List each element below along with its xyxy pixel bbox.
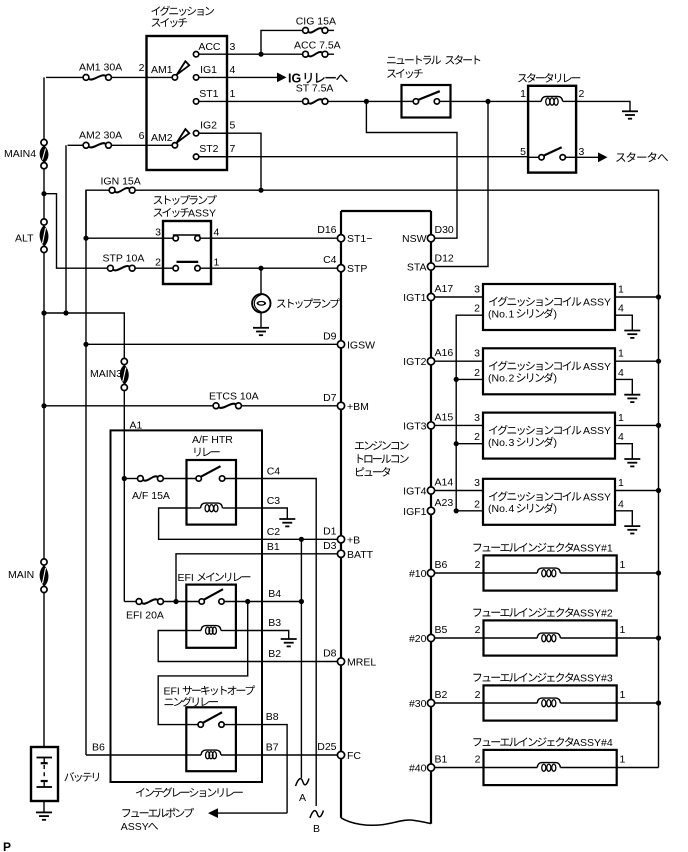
svg-text:ST 7.5A: ST 7.5A xyxy=(296,83,334,95)
wire junction up to CIG fuse row xyxy=(261,30,303,54)
fuse CIG 15A xyxy=(303,28,309,34)
ground at EFI relay coil xyxy=(281,638,297,640)
stop lamp switch pin3 xyxy=(173,236,178,241)
wire ACC junction to ACC fuse xyxy=(261,53,303,55)
wire STP feed jog xyxy=(44,194,108,269)
wire AM2 fuse to switch xyxy=(111,144,146,146)
svg-text:(No.: (No. xyxy=(488,437,508,449)
svg-text:EFI 20A: EFI 20A xyxy=(126,610,164,622)
wire NSW to starter relay xyxy=(451,100,529,102)
label battery xyxy=(64,772,99,782)
wire pin4 to ECU ST1- xyxy=(211,237,341,239)
A/F relay coil xyxy=(201,503,223,508)
svg-text:ASSY#2: ASSY#2 xyxy=(573,608,613,620)
wire STP fuse to pin2 xyxy=(135,267,163,269)
wire IG2 junction to right bus xyxy=(261,190,659,767)
node line A B4 junction xyxy=(299,599,304,604)
wire MAIN3 line to EFI fuse xyxy=(124,601,136,603)
svg-text:1: 1 xyxy=(509,308,515,320)
svg-text:2: 2 xyxy=(139,62,145,74)
label fuel injector assy #2 xyxy=(473,608,573,618)
ECU pin D30 NSW xyxy=(427,235,434,242)
node bus junction coil 2 xyxy=(656,359,661,364)
svg-text:IG1: IG1 xyxy=(200,64,217,76)
svg-text:): ) xyxy=(554,308,558,320)
svg-text:2: 2 xyxy=(509,373,515,385)
fuse ACC 7.5A xyxy=(303,51,309,57)
svg-text:B2: B2 xyxy=(435,689,448,701)
fuse A/F 15A xyxy=(138,476,144,482)
svg-text:): ) xyxy=(554,437,558,449)
ignition coil assy No.3 box xyxy=(483,413,615,459)
svg-text:#40: #40 xyxy=(409,763,427,775)
fusible link MAIN3 xyxy=(121,358,127,364)
svg-text:(No.: (No. xyxy=(488,373,508,385)
svg-text:B7: B7 xyxy=(266,742,279,754)
wire ST2 to starter relay pin5 xyxy=(199,156,528,158)
ignition switch SW1 box xyxy=(147,36,228,170)
integration relay box xyxy=(111,430,263,782)
svg-text:MAIN4: MAIN4 xyxy=(4,148,36,160)
node junction pin3 xyxy=(83,236,88,241)
ignition switch AM2 lever xyxy=(177,129,190,143)
svg-text:D1: D1 xyxy=(323,525,337,537)
node bus junction injector 2 xyxy=(656,635,661,640)
ECU pin B6 #10 xyxy=(427,569,434,576)
svg-text:(No.: (No. xyxy=(488,308,508,320)
ground at battery xyxy=(36,811,52,813)
label fuel injector assy #4 xyxy=(473,737,573,747)
wire coil1 pin4 to ground xyxy=(615,315,632,330)
ECU pin D9 IGSW xyxy=(337,341,344,348)
svg-text:2: 2 xyxy=(475,689,481,701)
svg-text:1: 1 xyxy=(618,412,624,424)
wire A1 to AF fuse xyxy=(124,478,137,480)
fuse AM1 30A xyxy=(83,75,89,81)
wire ETCS fuse to ECU +BM xyxy=(241,405,341,407)
svg-text:A/F HTR: A/F HTR xyxy=(192,434,233,446)
svg-text:ASSY: ASSY xyxy=(583,425,611,437)
COR lever xyxy=(203,712,222,723)
svg-text:4: 4 xyxy=(230,64,236,76)
ECU pin D7 +BM xyxy=(337,402,344,409)
svg-text:NSW: NSW xyxy=(402,233,427,245)
node IGSW junction xyxy=(83,342,88,347)
svg-text:2: 2 xyxy=(579,88,585,100)
svg-text:): ) xyxy=(554,373,558,385)
svg-text:4: 4 xyxy=(618,367,624,379)
node line A top junction xyxy=(299,537,304,542)
starter relay lever xyxy=(544,147,562,155)
ECU pin D8 MREL xyxy=(337,658,344,665)
svg-text:IGN 15A: IGN 15A xyxy=(101,176,141,188)
stop lamp switch top contact bar xyxy=(173,234,201,236)
node B1 junction xyxy=(173,599,178,604)
connector B break xyxy=(310,811,324,819)
svg-text:ST1: ST1 xyxy=(199,88,218,100)
label fuel injector assy #3 xyxy=(473,673,573,683)
svg-text:D25: D25 xyxy=(317,741,336,753)
label fuel injector assy #1 xyxy=(473,543,573,553)
wire AM2 corner to fuse xyxy=(68,144,84,146)
svg-text:ETCS 10A: ETCS 10A xyxy=(209,391,259,403)
fuel injector #3 box xyxy=(484,685,617,720)
A/F relay switch contacts xyxy=(196,476,201,481)
svg-text:ASSY: ASSY xyxy=(583,297,611,309)
ignition switch terminal ST2 pin 7 xyxy=(193,154,198,159)
wire ACC fuse tail xyxy=(328,53,334,55)
label ignition coil No.2 xyxy=(489,361,581,371)
label ignition coil No.4 xyxy=(489,491,581,501)
wire CIG fuse tail xyxy=(328,29,334,31)
EFI main relay box xyxy=(186,585,236,648)
svg-text:6: 6 xyxy=(139,130,145,142)
fuel injector #4 box xyxy=(484,750,617,785)
label スタータへ xyxy=(616,152,668,162)
ignition switch terminal ST1 pin 1 xyxy=(193,99,198,104)
COR coil on B6-B7 row xyxy=(201,750,221,755)
svg-text:STP 10A: STP 10A xyxy=(103,253,145,265)
svg-text:STP: STP xyxy=(347,263,367,275)
svg-text:1: 1 xyxy=(618,348,624,360)
wire coil4 pin2 to IGF line xyxy=(456,510,483,512)
svg-text:(No.: (No. xyxy=(488,503,508,515)
svg-text:3: 3 xyxy=(509,437,515,449)
wire A1 entry xyxy=(123,479,125,602)
injector #2 coil xyxy=(484,637,538,639)
wire junction down to stop lamp xyxy=(260,268,262,294)
svg-text:A14: A14 xyxy=(435,477,454,489)
svg-text:C4: C4 xyxy=(267,466,281,478)
svg-text:2: 2 xyxy=(475,624,481,636)
node STP feed junction xyxy=(41,191,46,196)
svg-text:1: 1 xyxy=(620,754,626,766)
svg-text:2: 2 xyxy=(474,498,480,510)
ignition coil assy No.1 box xyxy=(483,284,615,330)
svg-text:P: P xyxy=(3,840,11,852)
svg-text:BATT: BATT xyxy=(347,549,374,561)
svg-text:AM2: AM2 xyxy=(151,132,173,144)
svg-text:B1: B1 xyxy=(435,754,448,766)
circuit opening relay box xyxy=(186,707,236,771)
svg-text:3: 3 xyxy=(474,477,480,489)
svg-text:IGT4: IGT4 xyxy=(403,486,426,498)
label stop lamp xyxy=(277,298,340,308)
svg-text:3: 3 xyxy=(474,348,480,360)
ignition coil assy No.4 box xyxy=(483,479,615,525)
ignition switch terminal AM2 pin 6 xyxy=(172,143,177,148)
svg-text:ASSY: ASSY xyxy=(583,361,611,373)
svg-text:ST1−: ST1− xyxy=(347,233,372,245)
svg-text:ASSY: ASSY xyxy=(121,821,149,833)
svg-text:C2: C2 xyxy=(267,526,281,538)
wire B1 row to ECU BATT xyxy=(176,554,341,602)
battery box xyxy=(31,747,58,801)
wire #30 pin to injector xyxy=(434,702,483,704)
EFI relay coil xyxy=(201,626,221,631)
ECU pin C4 STP xyxy=(337,265,344,272)
fuel injector #1 box xyxy=(484,555,617,590)
node ST junction A xyxy=(364,99,369,104)
wire coil2 pin4 to ground xyxy=(615,379,632,394)
fuse ETCS 10A xyxy=(213,403,219,409)
neutral start switch contacts xyxy=(413,99,418,104)
wire coil No.1 pin1 to bus xyxy=(615,296,659,298)
ignition switch terminal AM1 pin 2 xyxy=(172,75,177,80)
ignition switch terminal IG1 pin 4 xyxy=(193,75,198,80)
svg-text:2: 2 xyxy=(474,431,480,443)
svg-text:ACC 7.5A: ACC 7.5A xyxy=(294,39,341,51)
wire IGT4 to coil pin3 xyxy=(434,490,483,492)
svg-text:STA: STA xyxy=(407,262,427,274)
svg-text:B3: B3 xyxy=(268,617,281,629)
wire B4 row xyxy=(224,601,301,603)
wire junction A to ECU NSW D30 xyxy=(366,101,457,238)
svg-text:2: 2 xyxy=(475,754,481,766)
svg-text:3: 3 xyxy=(474,412,480,424)
node ST junction B xyxy=(485,99,490,104)
svg-text:4: 4 xyxy=(618,431,624,443)
svg-text:1: 1 xyxy=(620,559,626,571)
node A/F fuse junction xyxy=(122,476,127,481)
wire IGN fuse left corner xyxy=(86,190,109,238)
stop lamp switch pin4 xyxy=(195,236,200,241)
stop lamp switch pin2 xyxy=(173,266,178,271)
svg-text:A23: A23 xyxy=(435,497,454,509)
node bus junction coil 4 xyxy=(656,488,661,493)
wire injector #1 to bus xyxy=(617,572,659,574)
wire A/F coil left to C2 row xyxy=(159,508,299,539)
wire coil No.4 pin1 to bus xyxy=(615,490,659,492)
ECU box edges xyxy=(341,210,431,212)
svg-text:AM1: AM1 xyxy=(151,64,173,76)
injector #1 coil xyxy=(484,572,538,574)
svg-text:AM2 30A: AM2 30A xyxy=(79,129,122,141)
EFI relay lever xyxy=(204,589,223,600)
svg-text:2: 2 xyxy=(155,257,161,269)
wire EFI coil left to B2 row xyxy=(158,631,341,662)
svg-text:2: 2 xyxy=(475,559,481,571)
svg-text:MREL: MREL xyxy=(347,657,376,669)
svg-text:A1: A1 xyxy=(130,420,143,432)
svg-text:4: 4 xyxy=(214,227,220,239)
svg-text:D9: D9 xyxy=(323,330,337,342)
wire #40 pin to injector xyxy=(434,767,483,769)
fusible link ALT xyxy=(41,219,47,225)
fusible link MAIN4 xyxy=(41,139,47,145)
svg-text:3: 3 xyxy=(579,146,585,158)
svg-text:ASSY: ASSY xyxy=(583,491,611,503)
svg-text:ASSY#4: ASSY#4 xyxy=(573,737,613,749)
wire injector #3 to bus xyxy=(617,702,659,704)
svg-text:B6: B6 xyxy=(92,742,105,754)
wire main battery line xyxy=(43,77,45,747)
wire ST1 to fuse xyxy=(227,100,303,102)
svg-text:3: 3 xyxy=(230,41,236,53)
ground at coil 3 xyxy=(624,458,640,460)
svg-text:1: 1 xyxy=(618,284,624,296)
svg-text:C4: C4 xyxy=(323,254,337,266)
svg-text:4: 4 xyxy=(509,503,515,515)
EFI relay switch contacts xyxy=(199,599,204,604)
wire fuel pump arrow row xyxy=(217,812,287,814)
wire IGT2 to coil pin3 xyxy=(434,360,483,362)
connector A break xyxy=(296,779,310,787)
wire starter relay pin3 out xyxy=(576,156,598,158)
wire row 313 to MAIN3 xyxy=(44,313,124,359)
svg-text:#30: #30 xyxy=(409,698,427,710)
svg-text:EFI: EFI xyxy=(164,686,180,698)
svg-text:ASSY#3: ASSY#3 xyxy=(573,673,613,685)
svg-text:B8: B8 xyxy=(266,711,279,723)
wire coil1 pin2 to IGF line xyxy=(456,315,483,511)
fusible link MAIN xyxy=(41,559,47,565)
injector #3 coil xyxy=(484,702,538,704)
svg-text:IGT3: IGT3 xyxy=(403,420,426,432)
ground at starter relay xyxy=(622,110,638,112)
wire stop lamp pin3 to main3 line xyxy=(86,237,163,239)
svg-text:1: 1 xyxy=(618,477,624,489)
svg-text:IGSW: IGSW xyxy=(347,339,375,351)
wire injector #4 to bus xyxy=(617,767,659,769)
svg-text:D30: D30 xyxy=(435,224,454,236)
node battery line junction 406 xyxy=(41,403,46,408)
wire starter relay pin2 to ground xyxy=(576,101,630,111)
svg-text:1: 1 xyxy=(520,88,526,100)
arrow to IG relay xyxy=(277,73,287,83)
node IGF junction 2 xyxy=(454,377,459,382)
injector #4 coil xyxy=(484,767,538,769)
label starter relay xyxy=(518,73,580,83)
svg-text:#10: #10 xyxy=(409,568,427,580)
label to fuel pump assy xyxy=(122,808,193,818)
svg-text:ST2: ST2 xyxy=(199,143,218,155)
svg-text:ASSY: ASSY xyxy=(188,208,216,220)
svg-text:+B: +B xyxy=(347,534,360,546)
wire IG1 to IG relay arrow xyxy=(227,76,278,78)
svg-text:IGF1: IGF1 xyxy=(403,506,426,518)
stop lamp switch pin1 xyxy=(195,266,200,271)
wire coil No.2 pin1 to bus xyxy=(615,360,659,362)
fuse EFI 20A xyxy=(136,599,142,605)
svg-text:+BM: +BM xyxy=(347,401,369,413)
svg-text:C3: C3 xyxy=(267,495,281,507)
starter relay box xyxy=(528,86,576,173)
ground at coil 2 xyxy=(624,394,640,396)
ignition switch AM1 lever xyxy=(177,61,190,74)
svg-text:IG2: IG2 xyxy=(200,120,217,132)
svg-text:CIG 15A: CIG 15A xyxy=(296,15,336,27)
starter relay switch pins 5-3 xyxy=(539,155,544,160)
arrow to fuel pump xyxy=(208,808,218,818)
svg-text:3: 3 xyxy=(155,227,161,239)
ECU pin A23 IGF1 xyxy=(427,507,434,514)
ground at coil 1 xyxy=(624,330,640,332)
svg-text:ASSY#1: ASSY#1 xyxy=(573,543,613,555)
svg-text:A17: A17 xyxy=(435,283,454,295)
svg-text:FC: FC xyxy=(347,750,361,762)
svg-text:D12: D12 xyxy=(435,253,454,265)
ECU bottom torn edge xyxy=(341,818,431,825)
svg-text:D3: D3 xyxy=(323,540,337,552)
node IGN junction xyxy=(258,188,263,193)
ECU pin B1 #40 xyxy=(427,764,434,771)
node bus junction coil 3 xyxy=(656,423,661,428)
wire coil4 pin4 to ground xyxy=(615,511,632,526)
wire IG2 to junction leg xyxy=(199,133,261,190)
svg-text:B2: B2 xyxy=(268,648,281,660)
ECU pin D3 BATT xyxy=(337,550,344,557)
wire EFI fuse to switch xyxy=(163,601,199,603)
wire ST fuse to NSW xyxy=(328,100,402,102)
node B4 junction xyxy=(245,599,250,604)
wire ACC to junction xyxy=(227,53,261,55)
svg-text:D7: D7 xyxy=(323,392,337,404)
svg-text:): ) xyxy=(554,503,558,515)
wire A/F C3 to ground xyxy=(236,508,287,519)
svg-text:1: 1 xyxy=(230,88,236,100)
ECU pin D1 +B xyxy=(337,536,344,543)
neutral start switch box xyxy=(402,85,451,118)
wire B8 out xyxy=(224,725,287,814)
label engine control computer xyxy=(355,441,409,450)
fuse ST 7.5A xyxy=(303,99,309,105)
label ignition coil No.1 xyxy=(489,296,581,306)
wire B4 junction to COR switch xyxy=(158,602,248,725)
wire A/F C4 to line B xyxy=(225,479,316,807)
neutral start switch lever xyxy=(418,91,440,100)
node ACC junction xyxy=(258,52,263,57)
wire C2 row to ECU +B xyxy=(299,538,342,540)
wire battery to ground xyxy=(43,801,45,812)
svg-text:4: 4 xyxy=(618,303,624,315)
wire IGSW feeder line xyxy=(85,190,87,755)
svg-text:3: 3 xyxy=(474,284,480,296)
node bus junction injector 3 xyxy=(656,700,661,705)
wire stop lamp to ground xyxy=(260,312,262,327)
svg-text:B1: B1 xyxy=(267,541,280,553)
ECU pin A15 IGT3 xyxy=(427,422,434,429)
svg-text:A: A xyxy=(299,792,306,804)
node IGF junction 3 xyxy=(454,441,459,446)
label stop lamp switch assy xyxy=(154,195,217,205)
svg-text:ALT: ALT xyxy=(15,233,34,245)
wire injector #2 to bus xyxy=(617,637,659,639)
ignition switch terminal ACC pin 3 xyxy=(193,52,198,57)
A/F relay lever xyxy=(201,466,221,477)
svg-text:MAIN3: MAIN3 xyxy=(90,368,122,380)
wire #20 pin to injector xyxy=(434,637,483,639)
ignition coil assy No.2 box xyxy=(483,348,615,394)
wire line A xyxy=(300,539,302,778)
wire #10 pin to injector xyxy=(434,572,483,574)
label neutral start switch xyxy=(387,55,480,65)
ECU pin B2 #30 xyxy=(427,699,434,706)
wire AM1 fuse to switch xyxy=(111,76,146,78)
wire battery line to ETCS fuse xyxy=(44,405,213,407)
COR switch contacts xyxy=(198,722,203,727)
node stop lamp junction xyxy=(258,266,263,271)
node bus junction coil 1 xyxy=(656,294,661,299)
starter relay coil pins 1-2 xyxy=(528,100,541,102)
wire pin1 to ECU STP xyxy=(211,267,341,269)
fuse STP 10A xyxy=(108,265,114,271)
ECU pin D25 FC xyxy=(337,751,344,758)
svg-text:MAIN: MAIN xyxy=(8,569,34,581)
svg-text:A/F 15A: A/F 15A xyxy=(132,490,170,502)
svg-text:B: B xyxy=(313,823,320,835)
svg-text:#20: #20 xyxy=(409,633,427,645)
